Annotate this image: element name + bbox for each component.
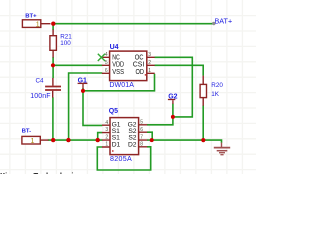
junction BT+ node (51, 22, 55, 26)
wire VDD node to U4 pin5 (53, 64, 102, 66)
wire D1-D2 loop (97, 147, 150, 170)
junction S2 rail (150, 138, 154, 142)
wire G2 net down to Q5 pin5 (147, 104, 173, 125)
svg-text:Xian: Xian (0, 171, 16, 174)
junction S1/BT- rail (96, 138, 100, 142)
svg-text:D1: D1 (112, 141, 121, 148)
wire U4 pin2 CSI to R20 top (155, 65, 204, 76)
ground (221, 143, 223, 147)
wire BAT+ rail (53, 23, 213, 25)
svg-text:VSS: VSS (112, 69, 124, 76)
svg-text:7: 7 (140, 134, 143, 140)
svg-text:2: 2 (105, 135, 108, 141)
svg-text:100: 100 (60, 40, 71, 47)
svg-text:5: 5 (140, 120, 143, 126)
Q5 right pin stubs (pins 5,6,7,8) (139, 125, 148, 147)
resistor R21 body (50, 36, 57, 51)
junction VSS/BT- rail (66, 138, 70, 142)
resistor R21 pin stubs (52, 30, 54, 58)
wire R20 bottom to rail (202, 105, 204, 140)
svg-text:CSI: CSI (133, 62, 145, 69)
junction G2 node (171, 115, 175, 119)
pin1 OD bubble dot (145, 74, 147, 76)
svg-text:8205A: 8205A (110, 155, 132, 163)
junction VDD node (51, 63, 55, 67)
svg-text:4: 4 (105, 120, 108, 126)
svg-text:6: 6 (105, 68, 108, 74)
svg-text:Q5: Q5 (109, 108, 118, 115)
wire VSS to U4 pin6 and down to BT- rail (69, 73, 103, 140)
node BAT+ wire end marker (212, 22, 215, 25)
transistor Q5 dual MOSFET 8205A body (110, 118, 139, 155)
wire BT- rail (48, 139, 103, 141)
svg-text:1: 1 (31, 138, 35, 145)
svg-text:100nF: 100nF (30, 93, 50, 100)
svg-text:D2: D2 (128, 141, 137, 148)
svg-text:1: 1 (148, 68, 151, 74)
svg-text:R20: R20 (211, 82, 223, 89)
wire S2 pin6 bend (147, 132, 152, 140)
wire U4 pin3 OC right down to G2 node (155, 57, 193, 117)
wire U4 pin1 OD down and left to G1 node (83, 74, 155, 91)
pin numbers Q5 (105, 120, 143, 148)
svg-text:NC: NC (112, 54, 120, 61)
svg-text:8: 8 (140, 141, 143, 147)
svg-text:BT-: BT- (22, 129, 32, 135)
IC U4 DW01A body (110, 51, 147, 81)
U4 left pin stubs (pins 4,5,6) (102, 57, 110, 73)
svg-text:6: 6 (140, 127, 143, 133)
no-connect X on U4 pin4 (98, 54, 105, 61)
wire R21 bottom to C4 (52, 57, 54, 78)
svg-text:DW01A: DW01A (109, 82, 134, 89)
wire C4 bottom to BT- rail (52, 97, 54, 140)
svg-text:1K: 1K (211, 91, 220, 98)
svg-text:BAT+: BAT+ (215, 16, 233, 25)
junction C4/BT- rail (51, 138, 55, 142)
svg-text:VDD: VDD (112, 62, 124, 69)
svg-text:Technologies: Technologies (34, 171, 82, 174)
pin names Q5 (112, 121, 137, 148)
resistor R20 body (200, 84, 206, 97)
pin D1 bubble dot (112, 150, 114, 152)
junction R20/S2 rail (201, 138, 205, 142)
connector BT+ (22, 20, 40, 28)
svg-text:3: 3 (105, 127, 108, 133)
svg-text:1: 1 (105, 142, 108, 148)
resistor R20 pin stubs (202, 76, 204, 106)
svg-text:4: 4 (105, 52, 108, 58)
connector BT- (22, 136, 40, 144)
capacitor C4 pin stubs (52, 78, 54, 98)
svg-text:2: 2 (148, 60, 151, 66)
wire S2 right rail to ground (147, 140, 222, 143)
svg-text:OD: OD (136, 69, 145, 76)
svg-text:U4: U4 (110, 44, 119, 51)
pin numbers U4 (105, 52, 151, 74)
svg-text:OC: OC (135, 54, 144, 61)
capacitor C4 plates (45, 87, 61, 91)
wire BT+ junction to R21 (52, 25, 54, 31)
wire G1 net vertical to Q5 pin4 (83, 88, 102, 125)
svg-text:1: 1 (36, 22, 40, 29)
U4 right pin stubs (pins 3,2,1) (147, 57, 155, 73)
svg-text:5: 5 (105, 60, 108, 66)
connector BT- pin stub (40, 139, 48, 141)
svg-text:3: 3 (148, 52, 151, 58)
svg-text:BT+: BT+ (25, 13, 37, 19)
Q5 left pin stubs (pins 4,3,2,1) (102, 125, 110, 147)
wire S1 pin3 bend (98, 133, 103, 141)
connector BT+ pin stub (41, 23, 51, 25)
pin names U4 (112, 54, 144, 76)
svg-text:C4: C4 (36, 78, 45, 85)
junction G1 node (81, 89, 85, 93)
